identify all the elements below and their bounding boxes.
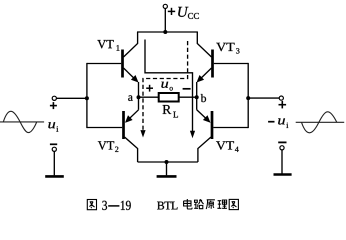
ground (center) [157, 175, 177, 178]
label + uo - (output polarity) [146, 82, 190, 92]
terminal +UCC (open circle) [163, 4, 167, 8]
wire: VT1 emitter down to node a [138, 82, 140, 97]
terminal: right input + (open circle) [279, 96, 283, 100]
source ui sine wave (left) [0, 111, 44, 132]
label VT4 [216, 141, 239, 152]
wire: VT1 base to left rail [87, 63, 121, 65]
label b [201, 94, 206, 102]
node a (junction dot) [137, 95, 141, 99]
wire: node b down to VT4 emitter [196, 97, 198, 110]
wire: +UCC terminal to top rail [164, 9, 166, 32]
label + ui - (left input polarity) [48, 102, 58, 144]
transistor VT3 (NPN) [197, 32, 212, 81]
junction: right input node [246, 96, 250, 100]
caption: figure number 3-19 [87, 200, 96, 210]
node b (junction dot) [195, 95, 199, 99]
wire: node a to resistor RL [139, 96, 159, 98]
wire: VT3 emitter down to node b [196, 82, 198, 97]
wire: VT3 base to right rail [214, 63, 248, 65]
wire: node a down to VT2 emitter [138, 97, 140, 110]
wire: ground node down [166, 162, 168, 175]
source -ui sine wave (right) [296, 112, 345, 133]
wire: left input terminal to rail [56, 97, 87, 99]
junction: UCC node on top rail [163, 30, 167, 34]
wire: left rail (VT1 base to VT2 base) [86, 63, 88, 128]
wire: left - terminal to ground [53, 151, 55, 175]
terminal: right input - (open circle) [280, 146, 284, 150]
junction: left input node [85, 96, 89, 100]
wire: VT4 base to right rail [213, 127, 248, 129]
transistor VT4 (PNP) [197, 110, 212, 162]
wire: resistor RL to node b [179, 96, 197, 98]
ground (right) [274, 173, 292, 176]
label RL [163, 105, 178, 117]
terminal: left input - (open circle) [52, 147, 56, 151]
label +UCC [168, 7, 199, 19]
label VT1 [97, 40, 119, 51]
transistor VT1 (NPN) [123, 32, 138, 81]
wire: bottom rail [138, 161, 198, 163]
wire: right rail (VT3 base to VT4 base) [247, 63, 249, 128]
transistor VT2 (PNP) [124, 110, 139, 162]
label + -ui - (right input polarity) [268, 101, 288, 142]
current path (solid): VT1 half-cycle [145, 40, 193, 132]
wire: right - terminal to ground [281, 150, 283, 174]
junction: bottom rail ground node [165, 160, 169, 164]
label VT2 [98, 141, 119, 152]
caption: BTL circuit schematic title [157, 202, 177, 210]
current path (dashed): VT3 half-cycle [143, 41, 188, 131]
wire: VT2 base to left rail [87, 127, 122, 129]
label a [128, 95, 133, 101]
terminal: left input + (open circle) [52, 96, 56, 100]
ground (left) [45, 175, 64, 178]
label VT3 [216, 43, 239, 54]
wire: top rail [137, 31, 198, 33]
wire: right rail to right input terminal [248, 97, 279, 99]
resistor RL (box) [159, 93, 179, 102]
